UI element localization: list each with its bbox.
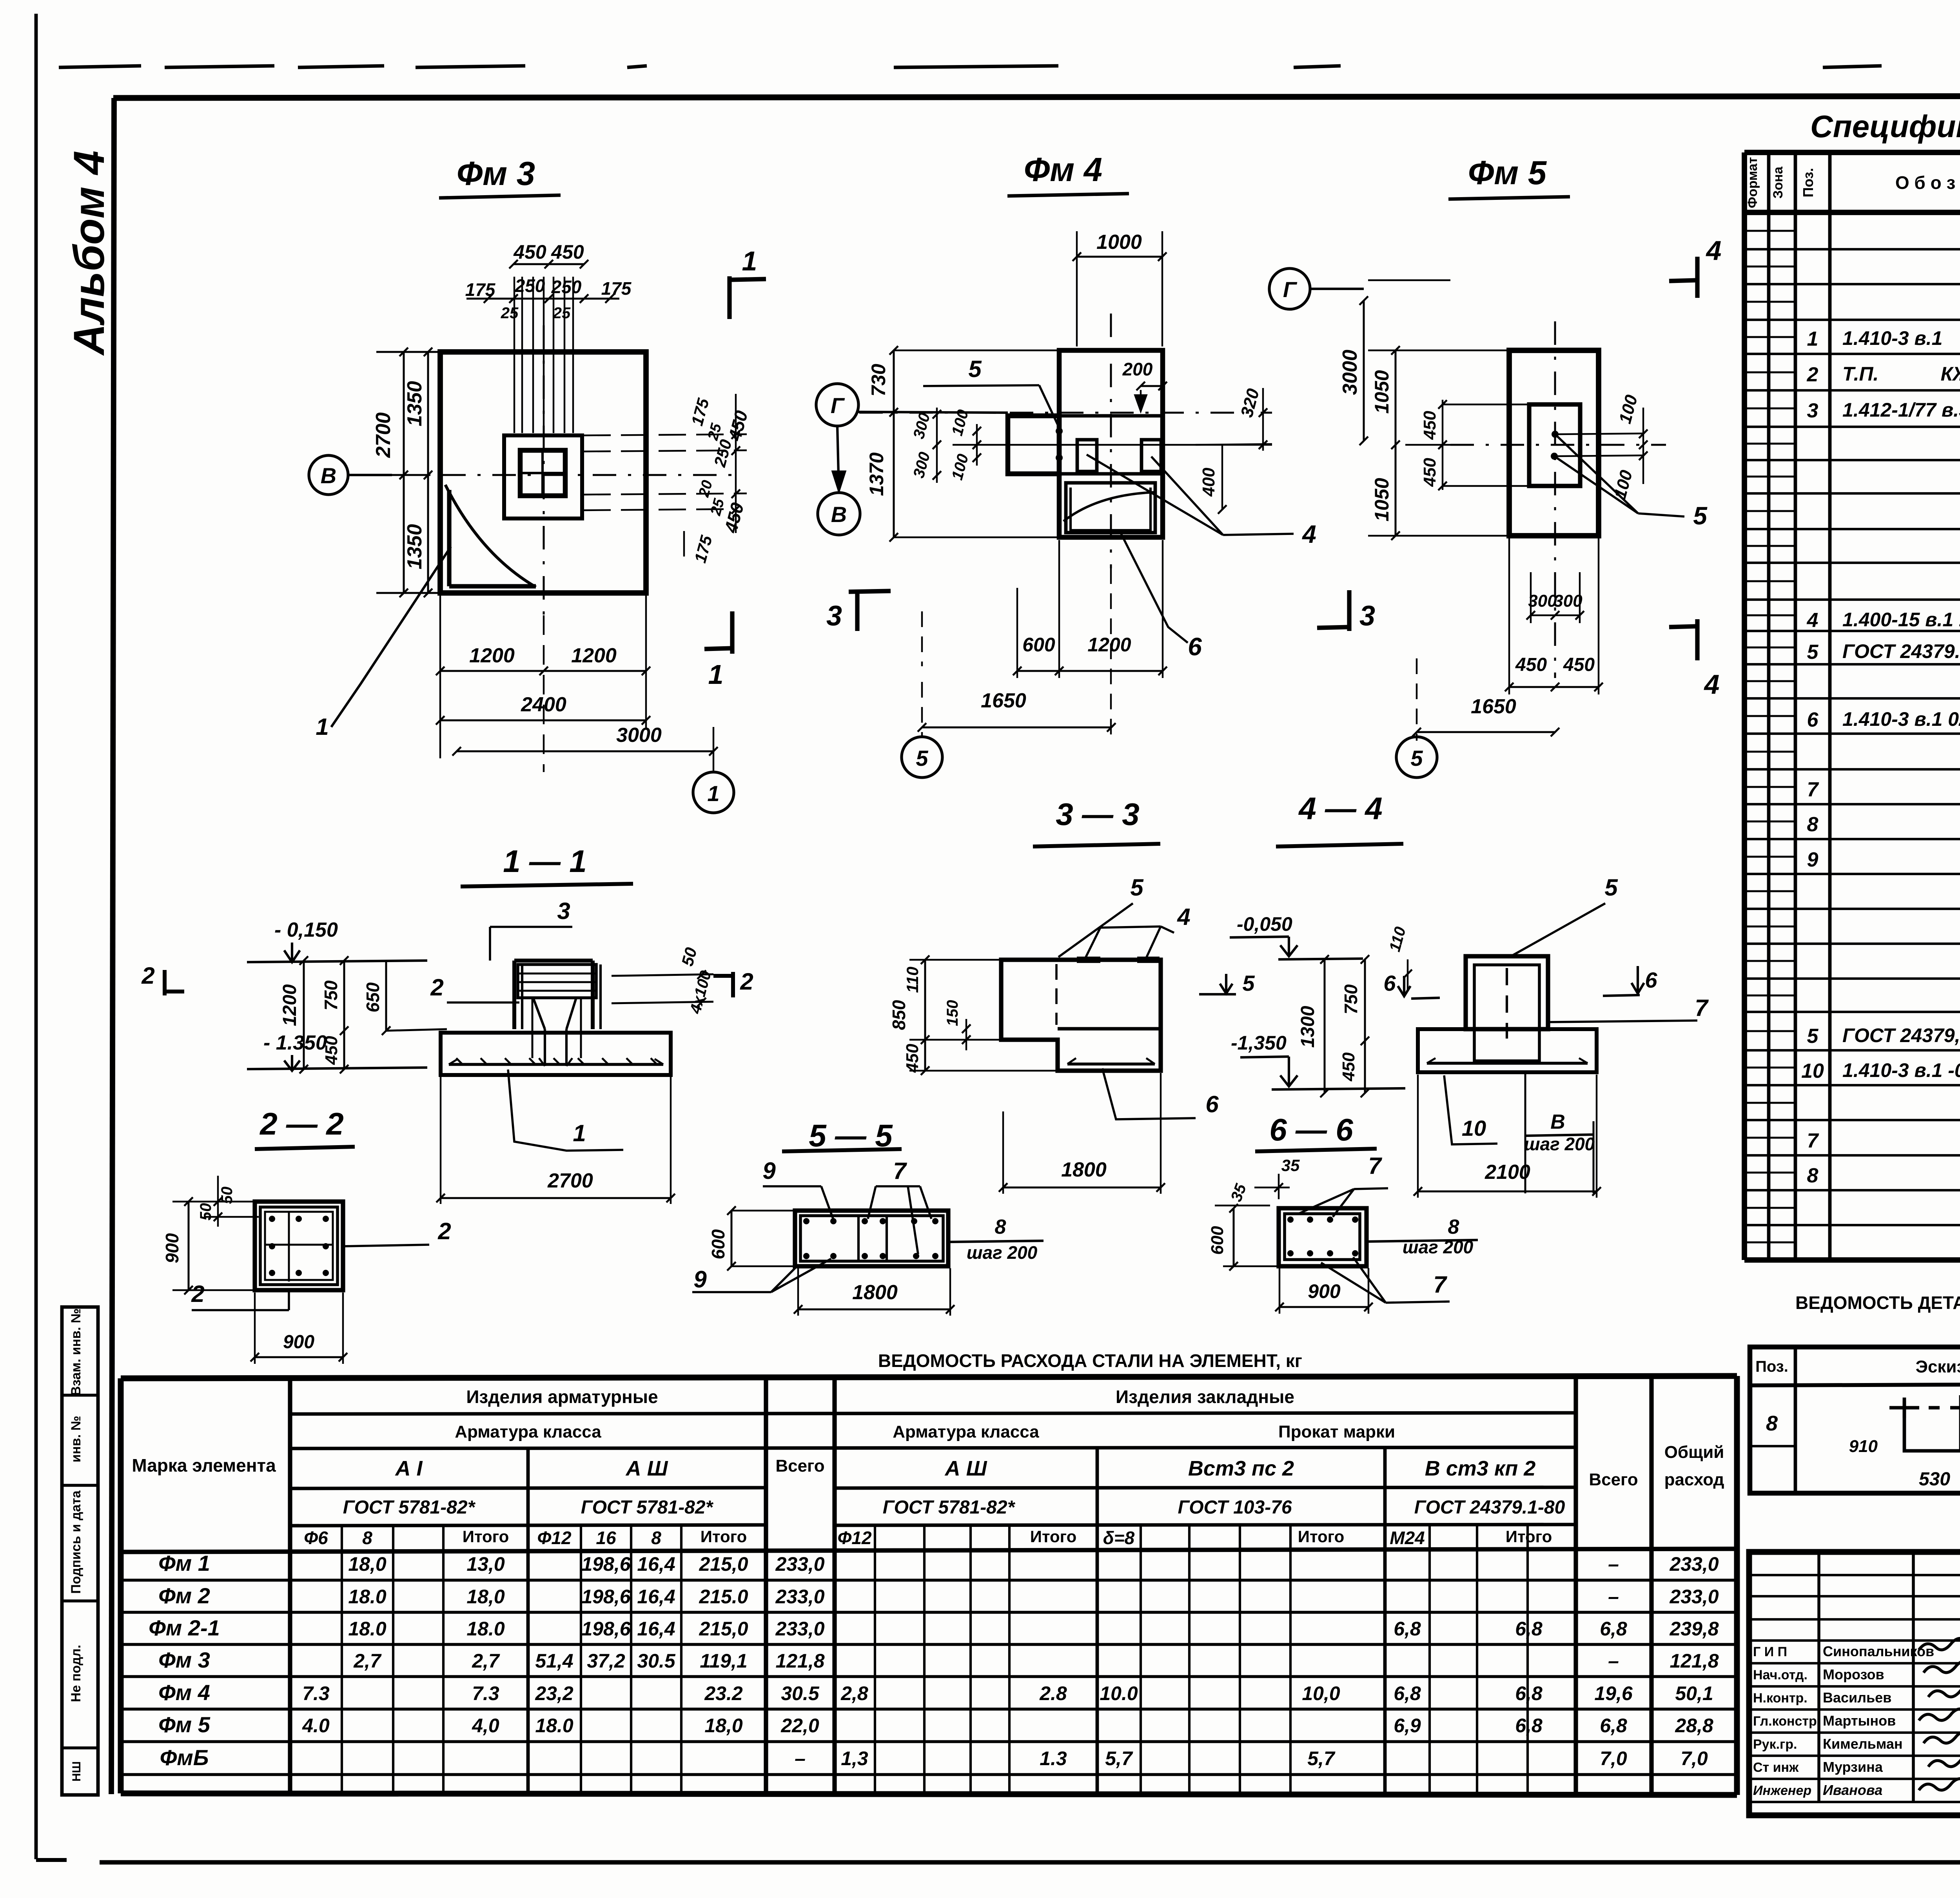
svg-text:6,8: 6,8 — [1394, 1618, 1421, 1640]
axis B circle — [309, 455, 348, 495]
svg-text:6: 6 — [1188, 633, 1202, 661]
svg-text:50: 50 — [218, 1187, 236, 1204]
svg-text:4,0: 4,0 — [472, 1715, 499, 1737]
Fm5 right dims 100 — [1558, 433, 1643, 434]
svg-text:6: 6 — [1383, 971, 1396, 995]
4-4 cut mark 6 left — [1411, 998, 1440, 999]
svg-text:35: 35 — [1281, 1156, 1300, 1175]
svg-text:Ф12: Ф12 — [837, 1528, 871, 1548]
svg-text:200: 200 — [1122, 359, 1153, 379]
svg-text:18.0: 18.0 — [348, 1618, 387, 1640]
svg-text:10: 10 — [1462, 1116, 1486, 1140]
svg-text:1.400-15 в.1 150-44: 1.400-15 в.1 150-44 — [1842, 609, 1960, 631]
signatures — [1919, 1638, 1960, 1650]
svg-text:шаг 200: шаг 200 — [967, 1242, 1038, 1263]
svg-text:Итого: Итого — [463, 1527, 509, 1546]
svg-text:13,0: 13,0 — [466, 1553, 505, 1575]
section mark 1 top — [727, 276, 731, 319]
svg-text:–: – — [1608, 1586, 1619, 1608]
svg-text:10,0: 10,0 — [1302, 1682, 1340, 1704]
Fm4 centerlines — [859, 412, 1272, 414]
1-1 slab — [441, 1033, 671, 1075]
sheet bottom edge line — [36, 1858, 67, 1862]
svg-text:7.3: 7.3 — [302, 1682, 330, 1704]
svg-text:5: 5 — [1807, 1025, 1819, 1048]
svg-text:Ф12: Ф12 — [537, 1528, 571, 1548]
section mark 3 left — [855, 590, 859, 631]
svg-text:8: 8 — [1807, 813, 1818, 836]
svg-text:Ф6: Ф6 — [304, 1528, 328, 1548]
svg-text:Васильев: Васильев — [1823, 1690, 1891, 1706]
svg-text:6: 6 — [1205, 1091, 1219, 1117]
Fm3 outer square — [440, 352, 646, 593]
Fm5 leaders to 5 — [1554, 434, 1638, 513]
svg-text:175: 175 — [465, 279, 496, 300]
svg-text:4 — 4: 4 — 4 — [1298, 791, 1382, 826]
svg-text:198,6: 198,6 — [581, 1553, 631, 1575]
svg-text:КЖИ КР3: КЖИ КР3 — [1941, 363, 1960, 385]
2-2 rebar dots — [269, 1216, 275, 1222]
svg-text:Зона: Зона — [1771, 166, 1786, 199]
Fm4 inner recess — [1066, 483, 1155, 533]
svg-text:8: 8 — [1448, 1216, 1459, 1238]
axis 5 circle Fm5 — [1396, 737, 1437, 778]
svg-text:2700: 2700 — [547, 1169, 593, 1192]
Fm3 corner detail — [445, 485, 536, 587]
svg-text:1 — 1: 1 — 1 — [503, 844, 586, 879]
svg-text:30.5: 30.5 — [637, 1650, 676, 1672]
svg-text:1000: 1000 — [1096, 231, 1142, 254]
svg-text:7: 7 — [1695, 995, 1709, 1021]
svg-text:Итого: Итого — [1030, 1527, 1076, 1546]
svg-text:шаг 200: шаг 200 — [1524, 1134, 1595, 1154]
svg-text:1650: 1650 — [981, 689, 1026, 712]
svg-text:6,9: 6,9 — [1394, 1715, 1421, 1737]
svg-text:450: 450 — [1420, 411, 1439, 440]
4-4 bolt dashed — [1506, 968, 1508, 1039]
Fm4 top dim 1000 — [1077, 256, 1162, 258]
svg-text:530: 530 — [1919, 1469, 1950, 1490]
svg-text:М24: М24 — [1390, 1528, 1425, 1548]
svg-text:1350: 1350 — [403, 524, 426, 569]
svg-text:Изделия закладные: Изделия закладные — [1116, 1387, 1294, 1407]
svg-text:1200: 1200 — [571, 644, 617, 667]
svg-text:16,4: 16,4 — [637, 1618, 675, 1640]
svg-text:10.0: 10.0 — [1100, 1682, 1138, 1704]
svg-text:Арматура класса: Арматура класса — [455, 1422, 601, 1441]
svg-text:600: 600 — [1208, 1226, 1227, 1255]
svg-text:Фм 5: Фм 5 — [1468, 154, 1547, 192]
svg-text:- 1.350: - 1.350 — [263, 1031, 327, 1054]
2-2 bottom dim 900 — [255, 1356, 343, 1358]
section mark 3 right — [1347, 590, 1351, 631]
svg-text:7: 7 — [893, 1158, 907, 1184]
svg-text:Изделия арматурные: Изделия арматурные — [466, 1387, 658, 1407]
svg-text:2: 2 — [1807, 363, 1818, 386]
svg-text:910: 910 — [1849, 1437, 1878, 1456]
svg-text:Итого: Итого — [1298, 1527, 1344, 1546]
svg-text:233,0: 233,0 — [1669, 1586, 1719, 1608]
Fm3 bolt projection lines — [514, 277, 515, 433]
svg-text:1.410-3 в.1 02: 1.410-3 в.1 02 — [1842, 708, 1960, 730]
svg-text:1: 1 — [316, 714, 328, 740]
axis 5 circle Fm4 — [902, 737, 942, 778]
svg-text:Кимельман: Кимельман — [1823, 1736, 1903, 1752]
svg-text:1200: 1200 — [279, 984, 300, 1026]
svg-text:119,1: 119,1 — [700, 1650, 747, 1672]
svg-text:5,7: 5,7 — [1105, 1748, 1133, 1769]
svg-text:18,0: 18,0 — [348, 1553, 387, 1575]
svg-text:Инженер: Инженер — [1753, 1783, 1811, 1798]
svg-text:ВЕДОМОСТЬ РАСХОДА СТАЛИ НА: ВЕДОМОСТЬ РАСХОДА СТАЛИ НА ЭЛЕМЕНТ, кг — [878, 1351, 1302, 1371]
svg-text:6,8: 6,8 — [1515, 1715, 1543, 1737]
svg-text:ВЕДОМОСТЬ ДЕТАЛЕЙ: ВЕДОМОСТЬ ДЕТАЛЕЙ — [1795, 1293, 1960, 1313]
3-3 left dims — [924, 960, 926, 1071]
svg-text:Итого: Итого — [701, 1527, 747, 1546]
Fm3 leader 1 — [331, 547, 451, 727]
svg-text:Т.П.: Т.П. — [1842, 363, 1878, 385]
svg-text:Взам. инв. №: Взам. инв. № — [69, 1308, 83, 1396]
svg-text:18.0: 18.0 — [535, 1715, 573, 1737]
1-1 dim 2700 — [441, 1197, 671, 1199]
svg-text:Фм 2: Фм 2 — [158, 1583, 210, 1608]
svg-text:Общий: Общий — [1664, 1443, 1724, 1462]
svg-text:51,4: 51,4 — [535, 1650, 573, 1672]
sheet top dashed edge — [59, 66, 141, 67]
svg-text:215.0: 215.0 — [699, 1586, 748, 1608]
1-1 anchor legs — [544, 1029, 546, 1066]
svg-text:18,0: 18,0 — [466, 1586, 505, 1608]
svg-text:Альбом 4: Альбом 4 — [65, 150, 113, 356]
Fm3 centerlines — [392, 474, 735, 476]
svg-text:Не подл.: Не подл. — [69, 1645, 83, 1702]
svg-text:2 — 2: 2 — 2 — [259, 1106, 343, 1141]
2-2 dims — [188, 1202, 190, 1290]
svg-text:450: 450 — [322, 1036, 341, 1065]
svg-text:НШ: НШ — [70, 1761, 83, 1782]
svg-text:8: 8 — [995, 1216, 1006, 1238]
Fm3 pedestal outer — [504, 435, 582, 518]
svg-text:5,7: 5,7 — [1307, 1748, 1336, 1769]
svg-text:450: 450 — [1339, 1052, 1358, 1082]
steel table data rows — [121, 1579, 1737, 1582]
svg-text:2: 2 — [191, 1281, 204, 1307]
svg-text:–: – — [1608, 1650, 1619, 1672]
svg-text:850: 850 — [889, 1000, 909, 1030]
svg-text:Формат: Формат — [1745, 157, 1760, 208]
svg-text:Фм 1: Фм 1 — [158, 1551, 210, 1575]
svg-text:ГОСТ 103-76: ГОСТ 103-76 — [1178, 1497, 1292, 1518]
svg-text:250: 250 — [551, 277, 582, 297]
svg-text:Фм 4: Фм 4 — [1024, 151, 1102, 189]
svg-text:4: 4 — [1807, 609, 1818, 632]
3-3 bolt dashed — [1055, 964, 1058, 1025]
Fm4 arm outline — [1008, 416, 1059, 474]
svg-text:6,8: 6,8 — [1600, 1715, 1627, 1737]
svg-text:1: 1 — [707, 781, 719, 806]
svg-text:121,8: 121,8 — [775, 1650, 824, 1672]
svg-text:Рук.гр.: Рук.гр. — [1753, 1737, 1797, 1752]
svg-text:450: 450 — [903, 1044, 922, 1073]
svg-text:750: 750 — [1341, 984, 1361, 1014]
svg-text:7.3: 7.3 — [472, 1682, 499, 1704]
svg-text:ФмБ: ФмБ — [160, 1745, 209, 1770]
svg-text:450: 450 — [1563, 654, 1595, 675]
svg-text:6,8: 6,8 — [1600, 1618, 1627, 1640]
svg-text:Всего: Всего — [775, 1456, 824, 1476]
svg-text:Вст3 пс 2: Вст3 пс 2 — [1188, 1457, 1294, 1480]
5-5 dim 1800 — [798, 1309, 950, 1311]
svg-text:28,8: 28,8 — [1675, 1715, 1713, 1737]
svg-text:198,6: 198,6 — [581, 1618, 631, 1640]
4-4 dim 2100 — [1418, 1191, 1597, 1193]
svg-text:- 0,150: - 0,150 — [274, 919, 338, 941]
svg-text:ГОСТ 5781-82*: ГОСТ 5781-82* — [343, 1497, 476, 1518]
svg-text:18.0: 18.0 — [466, 1618, 505, 1640]
svg-text:5: 5 — [1604, 874, 1618, 901]
svg-text:9: 9 — [762, 1158, 776, 1184]
svg-text:Подпись и дата: Подпись и дата — [69, 1490, 83, 1594]
svg-text:150: 150 — [944, 1000, 961, 1026]
svg-text:Прокат марки: Прокат марки — [1278, 1422, 1395, 1441]
6-6 dims — [1278, 1174, 1279, 1199]
title block outer — [1749, 1552, 1960, 1815]
svg-text:1350: 1350 — [403, 381, 426, 426]
4-4 slab — [1418, 1029, 1597, 1072]
svg-text:2: 2 — [141, 963, 154, 989]
svg-text:7: 7 — [1433, 1271, 1447, 1298]
svg-text:ГОСТ 24379,1-80: ГОСТ 24379,1-80 — [1842, 1024, 1960, 1046]
svg-text:2: 2 — [437, 1218, 451, 1244]
2-2 square — [255, 1202, 343, 1290]
svg-text:175: 175 — [601, 278, 632, 299]
3-3 dim 1800 — [1003, 1187, 1161, 1189]
4-4 right dims — [1324, 959, 1326, 1093]
Fm3 right dims — [583, 434, 747, 435]
svg-text:Поз.: Поз. — [1800, 168, 1816, 197]
svg-text:9: 9 — [1807, 848, 1818, 871]
svg-text:900: 900 — [162, 1233, 182, 1263]
svg-text:450: 450 — [1515, 654, 1547, 675]
svg-text:50: 50 — [197, 1203, 214, 1221]
Fm5 bottom dims — [1531, 615, 1580, 616]
svg-text:1200: 1200 — [1087, 634, 1131, 656]
svg-text:Поз.: Поз. — [1755, 1358, 1788, 1375]
svg-text:1800: 1800 — [852, 1281, 898, 1304]
svg-text:1370: 1370 — [866, 452, 887, 496]
4-4 cut mark 6 right — [1603, 995, 1640, 996]
svg-text:7: 7 — [1368, 1153, 1382, 1179]
4-4 pedestal — [1466, 956, 1548, 1029]
4-4 cut mark 5 — [1199, 993, 1236, 995]
svg-text:233,0: 233,0 — [775, 1553, 824, 1575]
svg-text:25: 25 — [501, 305, 519, 322]
svg-text:4: 4 — [1704, 669, 1720, 700]
svg-text:198,6: 198,6 — [581, 1586, 631, 1608]
svg-text:5: 5 — [1693, 502, 1708, 530]
svg-text:16: 16 — [596, 1528, 616, 1548]
svg-text:3: 3 — [1359, 600, 1375, 632]
svg-text:5: 5 — [1410, 746, 1423, 770]
axis G circle right — [1269, 268, 1310, 309]
svg-text:300: 300 — [1553, 591, 1583, 611]
svg-text:В: В — [321, 463, 336, 488]
svg-text:Гл.констр.: Гл.констр. — [1753, 1714, 1820, 1729]
svg-text:2700: 2700 — [372, 412, 395, 458]
Fm4 anchor plates — [1077, 440, 1097, 471]
svg-text:7,0: 7,0 — [1600, 1748, 1627, 1769]
svg-text:600: 600 — [1022, 634, 1055, 656]
svg-text:8: 8 — [362, 1528, 372, 1548]
svg-text:инв. №: инв. № — [69, 1416, 83, 1462]
svg-text:1300: 1300 — [1298, 1006, 1318, 1048]
Fm5 inner rect — [1529, 404, 1580, 486]
svg-text:5: 5 — [968, 356, 982, 382]
svg-text:В ст3 кп 2: В ст3 кп 2 — [1425, 1457, 1535, 1480]
Fm3 top dims — [514, 263, 584, 265]
svg-text:9: 9 — [693, 1266, 707, 1293]
Fm4 label 6 leader — [1121, 534, 1188, 643]
svg-text:1.3: 1.3 — [1040, 1748, 1067, 1769]
svg-text:7,0: 7,0 — [1681, 1748, 1708, 1769]
svg-text:16,4: 16,4 — [637, 1586, 675, 1608]
svg-text:1.410-3 в.1: 1.410-3 в.1 — [1842, 327, 1942, 349]
2-2 centerlines — [288, 1212, 290, 1282]
svg-text:8: 8 — [1766, 1412, 1778, 1435]
1-1 section2 mark left — [163, 970, 167, 995]
svg-text:900: 900 — [1308, 1280, 1341, 1302]
svg-text:Морозов: Морозов — [1823, 1666, 1884, 1682]
svg-text:18,0: 18,0 — [704, 1715, 743, 1737]
svg-text:5: 5 — [916, 746, 928, 770]
svg-text:2,7: 2,7 — [353, 1650, 382, 1672]
svg-text:Фм 4: Фм 4 — [158, 1680, 210, 1705]
axis G circle left — [816, 384, 858, 426]
svg-text:2400: 2400 — [521, 693, 566, 716]
left rotated strip — [62, 1307, 98, 1795]
svg-text:5: 5 — [1130, 874, 1144, 901]
section mark 1 bottom — [730, 611, 734, 654]
svg-text:650: 650 — [363, 982, 383, 1012]
svg-text:-0,050: -0,050 — [1237, 913, 1292, 935]
svg-text:3: 3 — [1807, 399, 1818, 422]
svg-text:–: – — [1608, 1553, 1619, 1575]
svg-text:Г И П: Г И П — [1753, 1644, 1787, 1659]
svg-text:1: 1 — [1807, 328, 1818, 350]
svg-text:22,0: 22,0 — [780, 1715, 819, 1737]
svg-text:18.0: 18.0 — [348, 1586, 387, 1608]
svg-text:8: 8 — [651, 1528, 661, 1548]
svg-text:23,2: 23,2 — [535, 1682, 573, 1704]
svg-text:6 — 6: 6 — 6 — [1269, 1112, 1353, 1147]
6-6 rebar dots — [1287, 1216, 1294, 1223]
svg-text:Фм 3: Фм 3 — [158, 1648, 210, 1672]
svg-text:О б о з н а ч е н и е: О б о з н а ч е н и е — [1895, 172, 1960, 193]
svg-text:730: 730 — [867, 364, 889, 397]
svg-text:3000: 3000 — [1339, 350, 1361, 395]
svg-text:6,8: 6,8 — [1515, 1682, 1543, 1704]
svg-text:239,8: 239,8 — [1669, 1618, 1719, 1640]
svg-text:215,0: 215,0 — [699, 1618, 748, 1640]
axis B circle left — [818, 493, 860, 535]
svg-text:6,8: 6,8 — [1394, 1682, 1421, 1704]
svg-text:300: 300 — [1528, 591, 1557, 611]
svg-text:4: 4 — [1706, 235, 1722, 266]
svg-text:450: 450 — [513, 241, 546, 263]
svg-text:23.2: 23.2 — [704, 1682, 743, 1704]
1-1 right small dims — [612, 974, 713, 976]
svg-text:4: 4 — [1301, 520, 1316, 548]
svg-text:Всего: Всего — [1589, 1470, 1638, 1489]
svg-text:1050: 1050 — [1371, 478, 1393, 521]
svg-text:ГОСТ 24379.1-80: ГОСТ 24379.1-80 — [1842, 640, 1960, 662]
svg-text:-1,350: -1,350 — [1231, 1032, 1287, 1054]
svg-text:50,1: 50,1 — [1675, 1682, 1713, 1704]
svg-text:В: В — [1550, 1111, 1565, 1133]
svg-text:3000: 3000 — [616, 724, 662, 747]
5-5 dim 600 — [731, 1211, 733, 1266]
Fm3 bottom dims — [440, 670, 646, 672]
svg-text:1.410-3 в.1 -01: 1.410-3 в.1 -01 — [1842, 1059, 1960, 1081]
svg-text:10: 10 — [1801, 1060, 1824, 1082]
Fm4 column outline — [1059, 350, 1163, 537]
svg-text:2,7: 2,7 — [472, 1650, 500, 1672]
svg-text:Фм 5: Фм 5 — [158, 1712, 211, 1737]
axis 1 circle — [693, 772, 734, 813]
svg-text:Спецификация к Фм 3, Фм 4,: Спецификация к Фм 3, Фм 4, Фм 5 — [1810, 109, 1960, 144]
svg-text:2100: 2100 — [1485, 1161, 1530, 1184]
svg-text:1800: 1800 — [1061, 1158, 1107, 1181]
3-3 mesh — [1067, 1062, 1155, 1066]
steel table header grid — [288, 1378, 292, 1793]
Fm5 left dims — [1363, 441, 1364, 444]
svg-text:4.0: 4.0 — [302, 1715, 330, 1737]
svg-text:шаг 200: шаг 200 — [1403, 1237, 1474, 1257]
svg-text:Мартынов: Мартынов — [1823, 1713, 1896, 1729]
1-1 dims left — [303, 961, 305, 1069]
svg-text:Итого: Итого — [1506, 1527, 1552, 1546]
1-1 section2 mark right — [731, 972, 735, 997]
svg-text:110: 110 — [903, 967, 922, 993]
svg-text:Нач.отд.: Нач.отд. — [1753, 1668, 1808, 1682]
svg-text:А I: А I — [394, 1457, 423, 1480]
title block signature rows — [1749, 1574, 1960, 1576]
Fm5 bolts — [1552, 431, 1559, 438]
svg-text:4: 4 — [1177, 904, 1190, 930]
3-3 plates on top — [1077, 957, 1100, 963]
section mark 4 bottom — [1695, 619, 1699, 660]
6-6 rect — [1279, 1208, 1367, 1266]
svg-text:1,3: 1,3 — [841, 1748, 868, 1769]
svg-text:Г: Г — [1283, 277, 1298, 302]
svg-text:5: 5 — [1242, 971, 1255, 995]
Fm4 dim 200 — [1141, 385, 1163, 387]
svg-text:расход: расход — [1664, 1470, 1724, 1489]
svg-text:900: 900 — [283, 1332, 314, 1352]
svg-text:400: 400 — [1199, 468, 1218, 497]
svg-text:Синопальников: Синопальников — [1823, 1643, 1934, 1659]
svg-text:Эскиз: Эскиз — [1916, 1357, 1960, 1376]
svg-text:250: 250 — [515, 276, 545, 296]
svg-text:233,0: 233,0 — [775, 1618, 824, 1640]
svg-text:Г: Г — [831, 393, 845, 418]
svg-text:1200: 1200 — [469, 644, 515, 667]
svg-text:1: 1 — [742, 246, 757, 276]
svg-text:215,0: 215,0 — [699, 1553, 748, 1575]
svg-text:2,8: 2,8 — [840, 1682, 868, 1704]
Fm5 centerlines — [1450, 444, 1666, 446]
svg-text:19,6: 19,6 — [1594, 1682, 1633, 1704]
